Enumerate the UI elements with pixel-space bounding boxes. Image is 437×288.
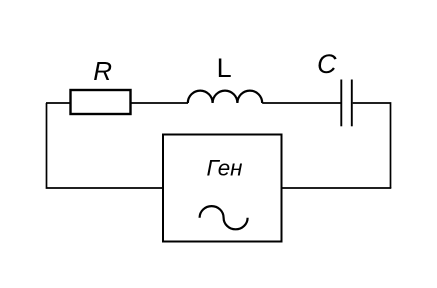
svg-text:C: C [317, 49, 337, 79]
wire: left vertical + bottom-left run to generator [47, 103, 164, 188]
svg-text:L: L [217, 53, 232, 83]
resistor R [71, 90, 131, 114]
sine-wave source symbol [200, 206, 248, 229]
wire: resistor to inductor [131, 102, 189, 104]
capacitor C: left plate [340, 80, 342, 127]
wire: generator to bottom-right corner [282, 187, 392, 189]
wire: capacitor to right corner + right vertical [353, 103, 391, 188]
svg-text:Ген: Ген [207, 155, 243, 180]
generator box U1 [163, 135, 282, 242]
inductor L (3 humps) [188, 91, 262, 103]
capacitor C: right plate [351, 80, 353, 127]
svg-text:R: R [93, 56, 112, 86]
wire: inductor to capacitor [262, 102, 340, 104]
wire: top-left segment from left corner to resistor [46, 102, 71, 104]
